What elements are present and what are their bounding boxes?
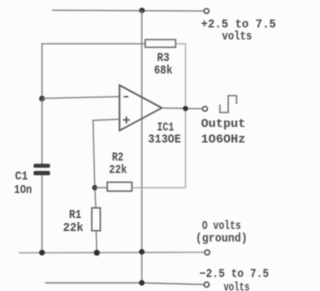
wire R2 right to output node: [132, 187, 186, 189]
terminal +V: [204, 9, 209, 14]
wire top +V rail: [52, 9, 204, 12]
svg-text:1O6OHz: 1O6OHz: [201, 133, 246, 147]
svg-text:R1: R1: [69, 208, 82, 222]
wire ground rail: [19, 251, 205, 254]
node rail ground junction: [139, 249, 145, 255]
terminal output: [203, 106, 208, 111]
node R2 junction: [92, 185, 97, 190]
wire non-inverting input: [93, 119, 120, 208]
op-amp plus pin mark: [123, 119, 130, 121]
svg-text:1On: 1On: [14, 183, 32, 197]
op-amp U1 triangle: [120, 85, 162, 130]
svg-text:R2: R2: [112, 150, 124, 164]
svg-text:Output: Output: [201, 117, 246, 131]
svg-text:313OE: 313OE: [148, 133, 181, 147]
svg-text:68k: 68k: [154, 64, 173, 78]
svg-text:22k: 22k: [63, 221, 84, 235]
capacitor C1: [41, 99, 43, 164]
wire bottom -V rail: [45, 283, 204, 285]
node junction top rail / op-amp +V: [139, 8, 145, 14]
node R1 ground junction: [94, 250, 100, 256]
wire R1 bottom to ground: [95, 231, 98, 253]
node output junction: [183, 106, 188, 111]
op-amp minus pin mark: [124, 96, 129, 98]
node C1 ground junction: [39, 250, 45, 256]
wire op-amp supply rail vertical: [141, 10, 143, 283]
terminal ground: [205, 250, 210, 255]
wire feedback top horizontal to R3: [42, 44, 145, 97]
node A inverting input junction: [39, 96, 45, 102]
svg-text:(ground): (ground): [196, 232, 248, 246]
svg-text:C1: C1: [15, 170, 28, 184]
svg-text:volts: volts: [222, 29, 252, 43]
square wave symbol: [220, 96, 237, 113]
wire R2 left: [95, 187, 107, 189]
wire R3 right to output node: [176, 44, 186, 188]
svg-text:22k: 22k: [109, 163, 127, 177]
svg-text:−2.5 to 7.5: −2.5 to 7.5: [200, 267, 270, 281]
resistor R2: [107, 182, 132, 191]
resistor R1: [92, 208, 101, 231]
wire op-amp output: [162, 107, 203, 110]
wire inverting input: [42, 97, 120, 99]
svg-text:volts: volts: [224, 281, 250, 291]
terminal -V: [204, 282, 209, 287]
resistor R3: [145, 40, 175, 48]
node rail -V junction: [139, 280, 145, 286]
